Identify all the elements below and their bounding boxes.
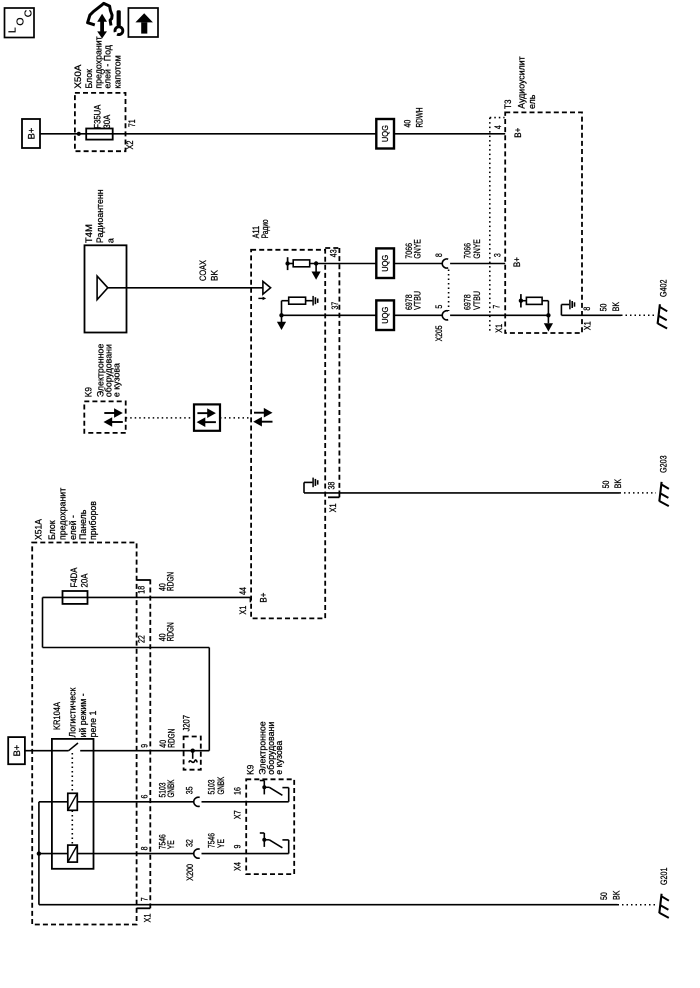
svg-text:7: 7 [492, 305, 502, 309]
svg-text:ий режим -: ий режим - [78, 693, 88, 737]
svg-text:50: 50 [599, 304, 609, 312]
svg-text:RDGN: RDGN [166, 572, 176, 591]
svg-text:BK: BK [613, 479, 623, 489]
svg-text:VTBU: VTBU [413, 291, 423, 310]
svg-text:YE: YE [216, 839, 226, 848]
svg-text:X7: X7 [233, 810, 243, 819]
svg-text:X1: X1 [328, 503, 338, 512]
svg-text:X1: X1 [582, 321, 592, 330]
svg-text:7: 7 [139, 897, 149, 901]
svg-text:е кузова: е кузова [112, 363, 122, 397]
svg-text:18: 18 [137, 586, 147, 594]
svg-text:8: 8 [139, 846, 149, 850]
svg-text:X50A: X50A [73, 64, 83, 89]
svg-text:6978: 6978 [462, 294, 472, 310]
svg-text:приборов: приборов [88, 501, 98, 540]
svg-text:T4M: T4M [84, 224, 94, 243]
svg-text:B+: B+ [26, 128, 36, 140]
svg-text:GNBK: GNBK [216, 777, 226, 795]
svg-text:елей -: елей - [68, 515, 78, 540]
svg-text:9: 9 [233, 845, 243, 849]
svg-text:7066: 7066 [462, 243, 472, 259]
svg-text:предохранит: предохранит [58, 488, 68, 540]
svg-text:реле 1: реле 1 [88, 711, 98, 738]
svg-text:3: 3 [492, 253, 502, 257]
svg-text:UQG: UQG [381, 255, 390, 272]
svg-text:71: 71 [127, 119, 137, 127]
svg-text:е кузова: е кузова [274, 741, 284, 775]
svg-text:X200: X200 [185, 864, 195, 881]
svg-text:K9: K9 [83, 387, 93, 397]
svg-text:X4: X4 [233, 862, 243, 871]
svg-text:X1: X1 [238, 606, 248, 615]
svg-text:B+: B+ [12, 745, 22, 757]
svg-text:капотом: капотом [112, 55, 122, 88]
svg-text:VTBU: VTBU [472, 291, 482, 310]
svg-text:40: 40 [403, 120, 413, 128]
svg-text:Радио: Радио [260, 219, 270, 238]
svg-text:BK: BK [611, 302, 621, 312]
svg-text:7546: 7546 [207, 833, 217, 848]
svg-text:O: O [15, 18, 27, 26]
svg-text:COAX: COAX [198, 260, 208, 281]
svg-text:Панель: Панель [78, 509, 88, 540]
svg-text:6: 6 [139, 795, 149, 799]
svg-text:43: 43 [328, 249, 338, 257]
svg-text:B+: B+ [513, 127, 524, 137]
svg-text:44: 44 [238, 587, 248, 595]
svg-text:50: 50 [599, 892, 609, 900]
svg-text:RDGN: RDGN [166, 729, 176, 748]
svg-text:37: 37 [330, 302, 340, 310]
svg-text:4: 4 [493, 125, 503, 129]
svg-text:30A: 30A [102, 114, 112, 128]
svg-text:Аудиоусилит: Аудиоусилит [517, 56, 527, 108]
svg-text:Логистическ: Логистическ [68, 687, 78, 737]
svg-text:C: C [22, 9, 34, 17]
svg-text:5: 5 [434, 305, 444, 309]
svg-text:G201: G201 [659, 867, 669, 885]
svg-text:22: 22 [137, 635, 147, 643]
svg-text:5103: 5103 [207, 779, 217, 794]
svg-text:KR104A: KR104A [52, 701, 62, 730]
svg-text:G402: G402 [658, 279, 668, 297]
svg-text:а: а [105, 238, 115, 243]
svg-text:T3: T3 [503, 100, 513, 110]
svg-text:RDWH: RDWH [415, 108, 425, 128]
svg-text:Радиоантенн: Радиоантенн [95, 189, 105, 243]
svg-text:G203: G203 [659, 455, 669, 473]
svg-text:16: 16 [233, 787, 243, 795]
svg-text:BK: BK [210, 270, 220, 281]
svg-text:35: 35 [184, 786, 194, 794]
svg-text:ель: ель [527, 94, 537, 109]
svg-text:32: 32 [184, 839, 194, 847]
svg-text:X1: X1 [494, 324, 504, 333]
svg-text:20A: 20A [80, 573, 90, 587]
svg-text:8: 8 [434, 253, 444, 257]
svg-text:X205: X205 [434, 325, 444, 341]
svg-text:8: 8 [582, 307, 592, 311]
svg-text:L: L [6, 27, 18, 33]
svg-text:X51A: X51A [34, 518, 44, 540]
svg-text:X1: X1 [143, 913, 153, 922]
svg-text:RDGN: RDGN [166, 622, 176, 641]
svg-text:GNYE: GNYE [472, 239, 482, 259]
svg-text:BK: BK [612, 890, 622, 900]
svg-text:F4DA: F4DA [69, 567, 79, 587]
svg-text:9: 9 [139, 744, 149, 748]
svg-text:GNBK: GNBK [166, 779, 176, 797]
svg-text:YE: YE [166, 840, 176, 849]
svg-text:38: 38 [327, 482, 337, 490]
svg-text:B+: B+ [512, 257, 523, 267]
svg-text:елей - Под: елей - Под [103, 45, 113, 89]
svg-text:J207: J207 [182, 715, 192, 732]
svg-text:UQG: UQG [381, 307, 390, 324]
svg-text:UQG: UQG [381, 125, 390, 142]
svg-text:B+: B+ [259, 592, 270, 602]
svg-text:Блок: Блок [47, 520, 57, 540]
svg-text:GNYE: GNYE [413, 239, 423, 259]
svg-text:X2: X2 [125, 140, 135, 149]
svg-text:K9: K9 [245, 765, 255, 775]
svg-text:50: 50 [601, 481, 611, 489]
